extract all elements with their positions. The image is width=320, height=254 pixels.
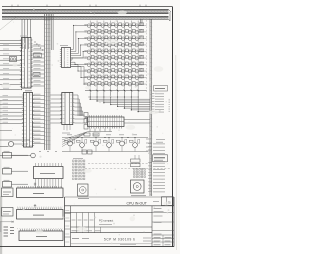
IC D2 top label [25, 90, 32, 92]
decoder IC D3 [60, 46, 71, 68]
paper edge shadow right [175, 55, 178, 250]
title label CPU IN-OUT [127, 201, 148, 205]
sheet border frame [0, 5, 174, 247]
resistors R1-R3 [3, 151, 29, 187]
matrix boundary dashed line [146, 20, 148, 92]
junction dots bus fan [35, 42, 44, 51]
connector X4 (bus strip 2) [17, 204, 64, 219]
strip link dotted 1 [17, 206, 63, 208]
list end ticks [169, 99, 171, 111]
label box K2 [33, 73, 40, 77]
doc number text [72, 238, 151, 245]
connector X2 [84, 113, 124, 130]
diode column V10-V19 [141, 23, 147, 85]
clock risers to D2a [0, 19, 30, 49]
speaker B1 [131, 155, 147, 196]
scan shadow left edge [0, 196, 2, 254]
title block grid [65, 197, 175, 247]
revision text block [0, 221, 14, 236]
sheet number box [162, 197, 174, 206]
note text right [156, 140, 165, 143]
matrix bottom rail [85, 89, 147, 91]
label box K1 [34, 53, 42, 57]
title text PC-compact [99, 218, 114, 224]
IC D4 (PIO) [60, 93, 74, 134]
wires D1/D2 to bus [31, 45, 45, 144]
scan noise [1, 8, 170, 245]
keyboard matrix grid wires [84, 21, 144, 91]
connector X3 (bus strip 1) [17, 183, 64, 198]
section dashed line 1 [88, 163, 150, 165]
IC D1 (CPU port upper) [20, 38, 33, 89]
IC D5 bus driver [34, 163, 64, 188]
address/data bus (top) [2, 9, 169, 19]
vertical bus to matrix col 8 [141, 19, 143, 23]
strip link dotted 2 [17, 228, 63, 230]
CPU interface input wires [0, 44, 24, 130]
wires D2 to D4 [50, 95, 62, 123]
filter component Z1 [10, 57, 17, 62]
svg-text:5CP M 030109 b: 5CP M 030109 b [104, 238, 136, 242]
vertical bus right (net K) [149, 19, 152, 196]
IC D2 (CPU port lower) [22, 93, 34, 148]
reset circuit D6 pad grid [73, 150, 93, 199]
paper background [0, 0, 180, 254]
vertical bus to D1/D2 [44, 14, 53, 150]
key switches S1-S80 with diodes [87, 23, 142, 86]
transistor V7 input stage [0, 140, 57, 158]
wires D4 to connector X2 [74, 95, 86, 123]
note boxes left margin [2, 188, 14, 216]
connector X5 (bus strip 3) [19, 229, 63, 241]
decoder output fan wires [71, 25, 87, 85]
scan fold artifact [0, 17, 16, 30]
wire bundle to analog section [62, 129, 112, 147]
wires X2 to bus [124, 120, 150, 124]
signal name list (I/O) [148, 144, 168, 192]
signal name list (keyboard) [152, 86, 168, 113]
bus corner wires [169, 9, 172, 21]
keyboard LED drivers V1-V6 [62, 133, 151, 152]
svg-text:CPU IN-OUT: CPU IN-OUT [127, 201, 148, 205]
matrix column return wires [88, 91, 150, 113]
section dashed line 2 [85, 167, 171, 169]
